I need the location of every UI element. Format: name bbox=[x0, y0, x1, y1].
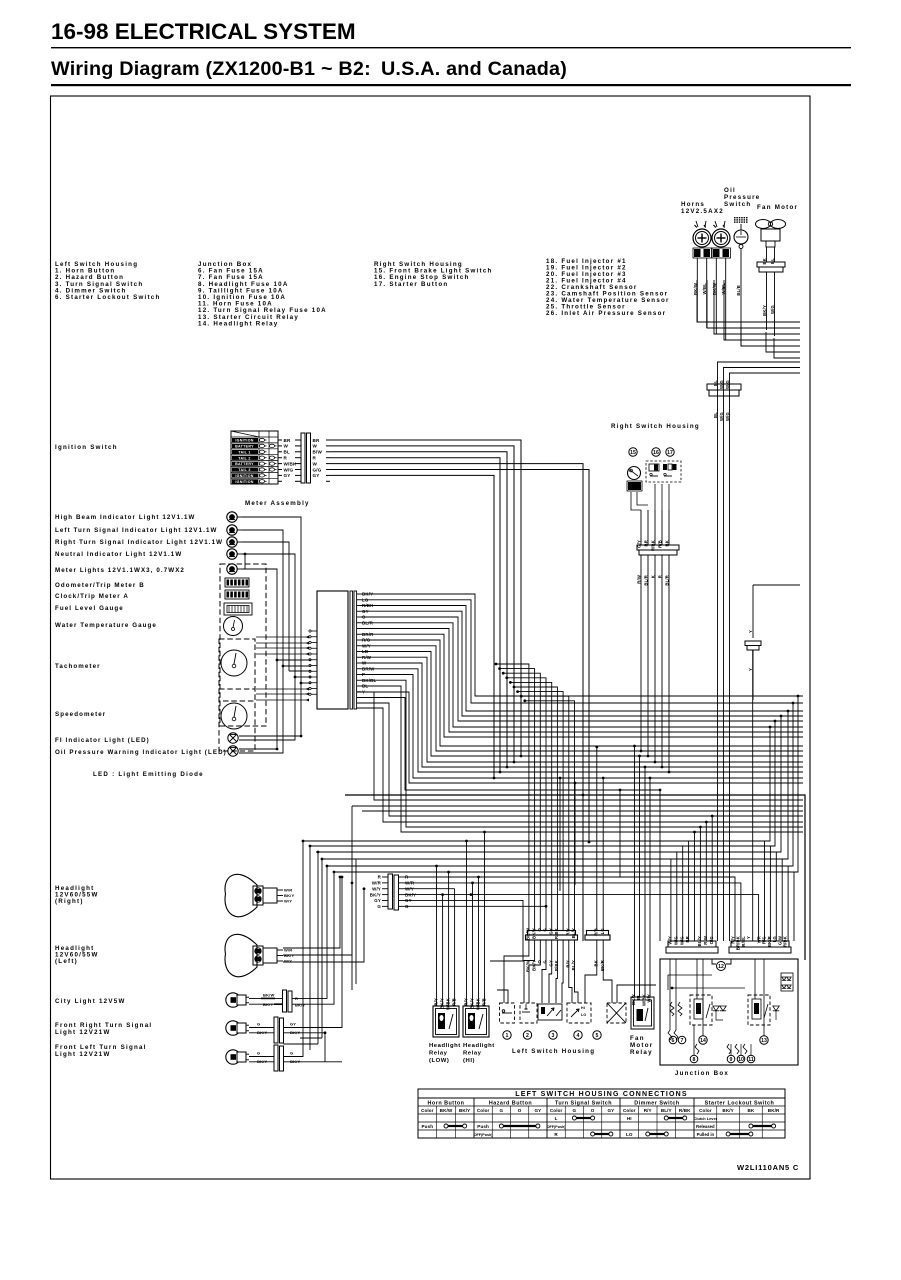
svg-text:W: W bbox=[313, 444, 318, 449]
svg-text:BL/Y: BL/Y bbox=[571, 960, 576, 970]
wire headlight left bbox=[283, 889, 364, 962]
wire jb1 bbox=[688, 841, 690, 941]
svg-text:BK/Y: BK/Y bbox=[470, 998, 475, 1009]
wire indicator bbox=[242, 542, 289, 671]
wire g5 b bbox=[574, 783, 576, 885]
svg-text:Color: Color bbox=[477, 1108, 490, 1113]
wire sensor bus bbox=[714, 280, 800, 334]
left switch housing: starter lockout X box bbox=[607, 1003, 626, 1023]
meter assembly connector bbox=[317, 591, 348, 709]
junction box outline bbox=[660, 959, 798, 1065]
headlight relay LOW bbox=[433, 1006, 459, 1037]
left switch housing connector bar A bbox=[528, 931, 576, 936]
svg-text:R: R bbox=[554, 1132, 558, 1137]
left switch housing: turn signal switch box bbox=[538, 1004, 562, 1020]
svg-text:W/G: W/G bbox=[719, 412, 724, 421]
wire right drop bbox=[765, 727, 771, 941]
svg-text:BL: BL bbox=[713, 380, 718, 386]
svg-text:7: 7 bbox=[681, 1038, 684, 1044]
wire meter-out row bbox=[361, 600, 803, 703]
wire relay riser 1 bbox=[442, 895, 444, 1006]
svg-text:Right Switch Housing: Right Switch Housing bbox=[611, 423, 700, 430]
wire sensor bus bbox=[724, 280, 800, 340]
svg-text:LG: LG bbox=[600, 928, 605, 934]
svg-text:R/B: R/B bbox=[658, 540, 663, 548]
left switch housing connections table bbox=[418, 1089, 785, 1138]
wire ignition W bbox=[330, 446, 514, 762]
svg-text:BL: BL bbox=[636, 994, 641, 1000]
wire lsh up bbox=[510, 682, 551, 930]
svg-text:BK: BK bbox=[747, 1108, 754, 1113]
svg-text:BK: BK bbox=[762, 258, 767, 264]
svg-text:City Light 12V5W: City Light 12V5W bbox=[55, 998, 126, 1005]
svg-text:10: 10 bbox=[738, 1057, 744, 1063]
svg-text:Wiring Diagram (ZX1200-B1 ~ B2: Wiring Diagram (ZX1200-B1 ~ B2: U.S.A. a… bbox=[51, 58, 567, 80]
junction dots bbox=[659, 789, 662, 792]
wire fan relay bbox=[639, 756, 641, 997]
svg-text:LO: LO bbox=[581, 1013, 586, 1017]
svg-text:BR: BR bbox=[313, 438, 321, 443]
svg-text:14: 14 bbox=[700, 1038, 706, 1044]
wire lsh down bbox=[569, 940, 572, 1003]
svg-text:W/Y: W/Y bbox=[647, 994, 652, 1003]
wire meter-out row bbox=[361, 646, 803, 751]
svg-text:Meter Lights 12V1.1WX3, 0.7WX2: Meter Lights 12V1.1WX3, 0.7WX2 bbox=[55, 567, 185, 574]
left switch housing bar B wires bbox=[596, 747, 598, 931]
fan motor connector bbox=[757, 262, 785, 267]
wire lsh down bbox=[549, 940, 552, 1003]
wire lsh down bbox=[504, 940, 529, 1003]
svg-text:R/Y: R/Y bbox=[566, 960, 571, 968]
svg-text:GY: GY bbox=[548, 960, 553, 966]
svg-text:Right Turn Signal Indicator Li: Right Turn Signal Indicator Light 12V1.1… bbox=[55, 539, 223, 546]
svg-text:Released: Released bbox=[696, 1124, 715, 1129]
svg-text:Left Switch Housing: Left Switch Housing bbox=[512, 1048, 595, 1055]
wire right drop bbox=[782, 711, 788, 941]
horn 1 bbox=[693, 229, 711, 247]
svg-text:BK/Y: BK/Y bbox=[762, 305, 767, 316]
wire oil a bbox=[239, 748, 277, 750]
junction box relay right bbox=[748, 995, 770, 1025]
left switch housing connector bar B bbox=[587, 931, 609, 936]
svg-text:O: O bbox=[591, 1108, 595, 1113]
svg-text:R/B: R/B bbox=[594, 928, 599, 936]
svg-text:5: 5 bbox=[596, 1033, 599, 1039]
junction box internal wires bbox=[675, 959, 677, 1030]
wire 790 drop bbox=[659, 790, 661, 941]
svg-text:15: 15 bbox=[630, 450, 636, 456]
svg-text:R/BK: R/BK bbox=[651, 540, 656, 551]
svg-text:G: G bbox=[543, 960, 548, 963]
svg-text:Color: Color bbox=[550, 1108, 563, 1113]
svg-text:GY: GY bbox=[548, 928, 553, 934]
svg-text:W/Y: W/Y bbox=[372, 886, 381, 891]
svg-text:BK/W: BK/W bbox=[440, 1108, 453, 1113]
svg-text:BR: BR bbox=[685, 936, 690, 942]
engine stop switch bbox=[646, 461, 681, 482]
svg-text:Y: Y bbox=[746, 936, 751, 939]
junction box connector bar 2 bbox=[729, 947, 791, 953]
FI indicator LED bbox=[228, 733, 238, 743]
wire hl BK/Y bbox=[404, 895, 759, 941]
svg-text:R: R bbox=[284, 456, 288, 461]
svg-text:W/Y: W/Y bbox=[668, 936, 673, 945]
svg-text:G: G bbox=[257, 1051, 260, 1056]
wire 806 drop bbox=[351, 806, 353, 990]
wire right drop bbox=[794, 696, 798, 941]
speedometer stub wires bbox=[256, 688, 309, 690]
wire meter-out row bbox=[361, 606, 803, 712]
wire ts vertical bbox=[309, 846, 311, 1050]
wire relay riser 2 bbox=[448, 872, 450, 1006]
svg-text:G: G bbox=[290, 1051, 293, 1056]
wire city light bbox=[292, 866, 327, 998]
title rule bbox=[51, 47, 851, 48]
wire jb1 bbox=[705, 822, 707, 941]
wire ignition W2 bbox=[330, 464, 583, 941]
wire fan relay bbox=[649, 778, 651, 997]
wire lsh up bbox=[521, 696, 569, 930]
wire headlight left bbox=[283, 877, 340, 948]
wire lsh down bbox=[542, 940, 546, 1003]
svg-text:GY: GY bbox=[374, 898, 381, 903]
wire sensor bus bbox=[697, 280, 800, 322]
svg-text:W/BL: W/BL bbox=[702, 283, 707, 295]
svg-text:W/BK: W/BK bbox=[476, 998, 481, 1010]
wire jb1 bbox=[699, 827, 701, 941]
svg-text:TAIL 1: TAIL 1 bbox=[238, 450, 250, 454]
wire rsh bbox=[640, 562, 642, 751]
svg-text:BK/W: BK/W bbox=[263, 993, 274, 998]
svg-text:Horns: Horns bbox=[681, 201, 705, 208]
wire bus row g4 bbox=[310, 845, 775, 847]
wire meter-out row bbox=[361, 680, 803, 827]
svg-text:Motor: Motor bbox=[630, 1042, 653, 1049]
wire rsh bbox=[654, 562, 656, 762]
wire lsh up bbox=[503, 673, 540, 930]
front right turn signal light bbox=[226, 1021, 240, 1035]
subtitle rule bbox=[51, 84, 851, 86]
svg-text:IGNITION: IGNITION bbox=[235, 480, 253, 484]
wire meter-out row bbox=[361, 623, 803, 727]
svg-text:BL: BL bbox=[770, 258, 775, 264]
svg-text:Junction Box: Junction Box bbox=[675, 1070, 729, 1077]
wire sensor bus bbox=[774, 338, 800, 358]
wire bundle right bbox=[724, 368, 801, 942]
svg-text:13: 13 bbox=[761, 1038, 767, 1044]
svg-text:O/G: O/G bbox=[709, 936, 714, 944]
svg-text:W: W bbox=[313, 461, 318, 466]
svg-text:BL/Y: BL/Y bbox=[697, 936, 702, 946]
wire meter-out 790 bbox=[357, 698, 660, 791]
svg-text:GY: GY bbox=[290, 1022, 296, 1027]
svg-text:R: R bbox=[313, 456, 317, 461]
svg-text:BK/Y: BK/Y bbox=[284, 953, 294, 958]
svg-text:R/Y: R/Y bbox=[464, 998, 469, 1006]
wire meter-out row bbox=[361, 594, 803, 696]
svg-text:Switch: Switch bbox=[724, 201, 751, 208]
svg-text:Speedometer: Speedometer bbox=[55, 711, 106, 718]
svg-text:TAIL 3: TAIL 3 bbox=[238, 468, 250, 472]
svg-text:1: 1 bbox=[506, 1033, 509, 1039]
svg-text:Clock/Trip Meter A: Clock/Trip Meter A bbox=[55, 593, 129, 600]
front left turn signal light bbox=[226, 1050, 240, 1064]
wire ground row bbox=[345, 795, 805, 960]
svg-text:8: 8 bbox=[693, 1057, 696, 1063]
svg-text:W/R: W/R bbox=[284, 888, 292, 893]
wire meter-out 822 bbox=[357, 708, 803, 822]
svg-text:OFF(Push): OFF(Push) bbox=[474, 1133, 494, 1137]
svg-text:W/G: W/G bbox=[284, 467, 294, 472]
svg-text:9: 9 bbox=[730, 1057, 733, 1063]
wire fan relay bbox=[634, 746, 636, 997]
wire ignition B/W bbox=[330, 452, 507, 767]
wire lsh up bbox=[500, 669, 535, 931]
svg-text:Tachometer: Tachometer bbox=[55, 663, 101, 670]
wire hl R bbox=[404, 877, 735, 941]
svg-text:Pulled in: Pulled in bbox=[697, 1132, 715, 1137]
svg-text:17: 17 bbox=[667, 450, 673, 456]
svg-text:FI Indicator Light (LED): FI Indicator Light (LED) bbox=[55, 737, 150, 744]
svg-text:G: G bbox=[500, 1108, 504, 1113]
svg-text:LEFT SWITCH HOUSING CONNECTION: LEFT SWITCH HOUSING CONNECTIONS bbox=[515, 1091, 688, 1098]
wire jb1 bbox=[676, 852, 678, 941]
svg-text:GY: GY bbox=[284, 473, 291, 478]
starter button bbox=[663, 464, 667, 470]
headlight right bbox=[225, 874, 257, 916]
svg-text:(LOW): (LOW) bbox=[429, 1058, 449, 1064]
svg-text:BATTERY: BATTERY bbox=[235, 462, 254, 466]
svg-text:LED : Light Emitting Diode: LED : Light Emitting Diode bbox=[93, 771, 204, 778]
clock segment display bbox=[225, 590, 249, 599]
left switch housing numbers bbox=[503, 1031, 511, 1039]
left switch housing: horn button box bbox=[500, 1003, 515, 1023]
wire bus row g4 bbox=[316, 851, 781, 853]
wire relay riser 7 bbox=[484, 832, 486, 1006]
wire bus row g4 bbox=[322, 858, 788, 860]
svg-text:Pressure: Pressure bbox=[724, 194, 761, 201]
svg-text:14. Headlight Relay: 14. Headlight Relay bbox=[198, 320, 279, 327]
svg-text:W2LI110AN5 C: W2LI110AN5 C bbox=[737, 1163, 799, 1172]
wire meter-out row bbox=[361, 663, 803, 767]
svg-text:6: 6 bbox=[672, 1038, 675, 1044]
svg-text:G: G bbox=[377, 904, 381, 909]
wire FI b bbox=[239, 677, 295, 740]
wire bus row g3 bbox=[352, 805, 803, 807]
wire lsh up bbox=[518, 692, 564, 931]
svg-text:Color: Color bbox=[699, 1108, 712, 1113]
svg-text:R/BK: R/BK bbox=[554, 960, 559, 971]
svg-text:BK/R: BK/R bbox=[600, 960, 605, 971]
svg-text:BL/Y: BL/Y bbox=[571, 928, 576, 938]
ignition switch connector block bbox=[231, 431, 278, 484]
wire ignition BR bbox=[330, 440, 521, 756]
svg-text:26. Inlet Air Pressure Sensor: 26. Inlet Air Pressure Sensor bbox=[546, 310, 666, 317]
right bundle connector bbox=[707, 384, 741, 390]
svg-text:BK/Y: BK/Y bbox=[531, 928, 536, 939]
svg-text:Relay: Relay bbox=[429, 1050, 448, 1056]
headlight relay HI bbox=[463, 1006, 489, 1037]
tachometer stub wires bbox=[256, 636, 309, 638]
wire lsh down bbox=[562, 940, 563, 1003]
svg-text:BL: BL bbox=[713, 412, 718, 418]
svg-text:Left Turn Signal Indicator Lig: Left Turn Signal Indicator Light 12V1.1W bbox=[55, 527, 218, 534]
wire g5 a bbox=[619, 790, 621, 877]
svg-text:W: W bbox=[284, 444, 289, 449]
svg-text:IGNITION: IGNITION bbox=[235, 439, 253, 443]
oil pressure switch bbox=[734, 217, 736, 218]
wire g5 c bbox=[559, 778, 561, 891]
svg-text:BR: BR bbox=[284, 438, 292, 443]
svg-text:(HI): (HI) bbox=[463, 1058, 475, 1064]
wire meter-out row bbox=[361, 686, 803, 832]
wire indicator bbox=[242, 517, 301, 735]
speedometer bbox=[219, 689, 255, 751]
svg-text:B/W: B/W bbox=[313, 450, 323, 455]
tachometer bbox=[219, 639, 255, 701]
svg-text:Light 12V21W: Light 12V21W bbox=[55, 1029, 111, 1036]
wire meter-out row bbox=[361, 652, 803, 757]
svg-text:4: 4 bbox=[577, 1033, 580, 1039]
svg-text:R/BK: R/BK bbox=[783, 936, 788, 947]
svg-text:Push: Push bbox=[422, 1124, 434, 1129]
wire sensor bus bbox=[707, 280, 800, 328]
svg-text:HI: HI bbox=[627, 1116, 632, 1121]
wire indicator bbox=[242, 530, 283, 666]
wire hl GY bbox=[404, 900, 523, 961]
wire lsh up bbox=[525, 701, 575, 931]
svg-text:R/BK: R/BK bbox=[554, 928, 559, 939]
wire relay riser 4 bbox=[466, 841, 468, 1006]
svg-text:Oil Pressure Warning Indicator: Oil Pressure Warning Indicator Light (LE… bbox=[55, 749, 227, 756]
svg-text:Ignition Switch: Ignition Switch bbox=[55, 444, 118, 451]
wire ts vertical 2 bbox=[317, 852, 319, 1044]
svg-text:BK/Y: BK/Y bbox=[284, 893, 294, 898]
wire relay riser 6 bbox=[478, 877, 480, 1006]
svg-text:16-98 ELECTRICAL SYSTEM: 16-98 ELECTRICAL SYSTEM bbox=[51, 19, 356, 44]
svg-text:TAIL 2: TAIL 2 bbox=[238, 456, 250, 460]
svg-text:W/G: W/G bbox=[673, 936, 678, 945]
svg-text:3: 3 bbox=[552, 1033, 555, 1039]
indicator lamp: high beam bbox=[227, 512, 237, 522]
svg-text:R/Y: R/Y bbox=[434, 998, 439, 1006]
wire jb1 bbox=[682, 846, 684, 941]
svg-text:BL/Y: BL/Y bbox=[661, 1108, 672, 1113]
svg-text:W/G: W/G bbox=[679, 936, 684, 945]
wire meter-out row bbox=[361, 611, 803, 716]
wire horn btn bbox=[497, 990, 508, 1003]
wire hl W/Y bbox=[404, 888, 455, 890]
wire meter-out row bbox=[361, 634, 803, 737]
svg-text:BK/Y: BK/Y bbox=[370, 892, 381, 897]
svg-text:Meter Assembly: Meter Assembly bbox=[245, 500, 310, 507]
wire speed sensor drop bbox=[752, 650, 754, 941]
svg-text:Color: Color bbox=[421, 1108, 434, 1113]
wire indicator stubs into connector bbox=[283, 665, 311, 667]
wire ignition GY bbox=[330, 475, 494, 778]
wire rsh bbox=[647, 562, 649, 756]
junction box resistors bbox=[670, 1002, 674, 1016]
right switch housing numbers 15 16 17 bbox=[629, 448, 637, 456]
svg-text:Color: Color bbox=[623, 1108, 636, 1113]
wire rsh bbox=[668, 562, 670, 772]
fan motor bbox=[756, 220, 771, 229]
svg-text:Front Right Turn Signal: Front Right Turn Signal bbox=[55, 1022, 152, 1029]
oil pressure warning LED bbox=[228, 746, 238, 756]
svg-text:G: G bbox=[543, 928, 548, 931]
speed sensor connector bbox=[752, 585, 754, 638]
svg-text:BK: BK bbox=[665, 540, 670, 546]
wire right drop bbox=[770, 721, 775, 941]
wire lsh down bbox=[524, 940, 535, 1003]
svg-text:W/Y: W/Y bbox=[284, 959, 292, 964]
wire bundle right bbox=[730, 373, 801, 941]
svg-text:BATTERY: BATTERY bbox=[235, 445, 254, 449]
wire right drop bbox=[788, 703, 793, 941]
wire drop 356 bbox=[355, 859, 357, 984]
diagram frame bbox=[51, 96, 811, 1179]
wire meter-out row bbox=[361, 640, 803, 746]
wire sensor bus bbox=[766, 332, 800, 352]
svg-text:R/B: R/B bbox=[452, 998, 457, 1006]
svg-text:11: 11 bbox=[748, 1057, 754, 1063]
svg-text:17. Starter Button: 17. Starter Button bbox=[374, 281, 448, 288]
svg-text:GY: GY bbox=[534, 1108, 541, 1113]
svg-text:Headlight: Headlight bbox=[463, 1043, 495, 1049]
svg-text:G/Y: G/Y bbox=[637, 540, 642, 548]
water temperature gauge bbox=[224, 617, 243, 636]
wire bus row g4 bbox=[327, 865, 793, 867]
svg-text:OFF(Push): OFF(Push) bbox=[547, 1125, 567, 1129]
svg-text:G: G bbox=[257, 1022, 260, 1027]
svg-text:Oil: Oil bbox=[724, 187, 736, 194]
wire relay riser 0 bbox=[436, 866, 438, 1006]
wire turn signal L bbox=[284, 841, 304, 1057]
svg-text:O: O bbox=[537, 927, 542, 931]
ignition connector bars bbox=[301, 433, 305, 483]
wire relay riser 3 bbox=[454, 889, 456, 1006]
svg-text:LO: LO bbox=[626, 1132, 633, 1137]
junction box fuse 12 bbox=[712, 959, 716, 964]
wire lsh down bbox=[529, 940, 540, 1003]
svg-text:BK/W: BK/W bbox=[526, 928, 531, 940]
svg-text:BK: BK bbox=[594, 960, 599, 966]
svg-text:(Left): (Left) bbox=[55, 958, 78, 965]
wire ignition G/G bbox=[330, 470, 589, 843]
wire lsh down bbox=[556, 940, 557, 1003]
left switch housing: hazard button box bbox=[520, 1003, 537, 1023]
wire indicator bbox=[242, 554, 295, 677]
svg-text:G: G bbox=[573, 1108, 577, 1113]
svg-text:BK/Y: BK/Y bbox=[459, 1108, 470, 1113]
wire bus row g4 bbox=[334, 871, 798, 873]
wire turn signal R bbox=[284, 877, 343, 1028]
svg-text:W/G: W/G bbox=[725, 412, 730, 421]
svg-text:Relay: Relay bbox=[463, 1050, 482, 1056]
svg-text:W/BK: W/BK bbox=[446, 998, 451, 1010]
svg-text:IGNITION: IGNITION bbox=[235, 474, 253, 478]
city light connector bbox=[283, 990, 287, 1012]
wire bundle right bbox=[718, 362, 801, 941]
svg-text:BL: BL bbox=[284, 450, 291, 455]
wire jb1 bbox=[711, 816, 713, 941]
wire ts vertical 3 bbox=[321, 859, 323, 1038]
fan motor relay bbox=[631, 997, 654, 1029]
front brake light switch bbox=[628, 467, 641, 480]
wire lsh up bbox=[507, 678, 546, 931]
wire hl G bbox=[404, 905, 546, 907]
wire meter-out row bbox=[361, 629, 803, 733]
